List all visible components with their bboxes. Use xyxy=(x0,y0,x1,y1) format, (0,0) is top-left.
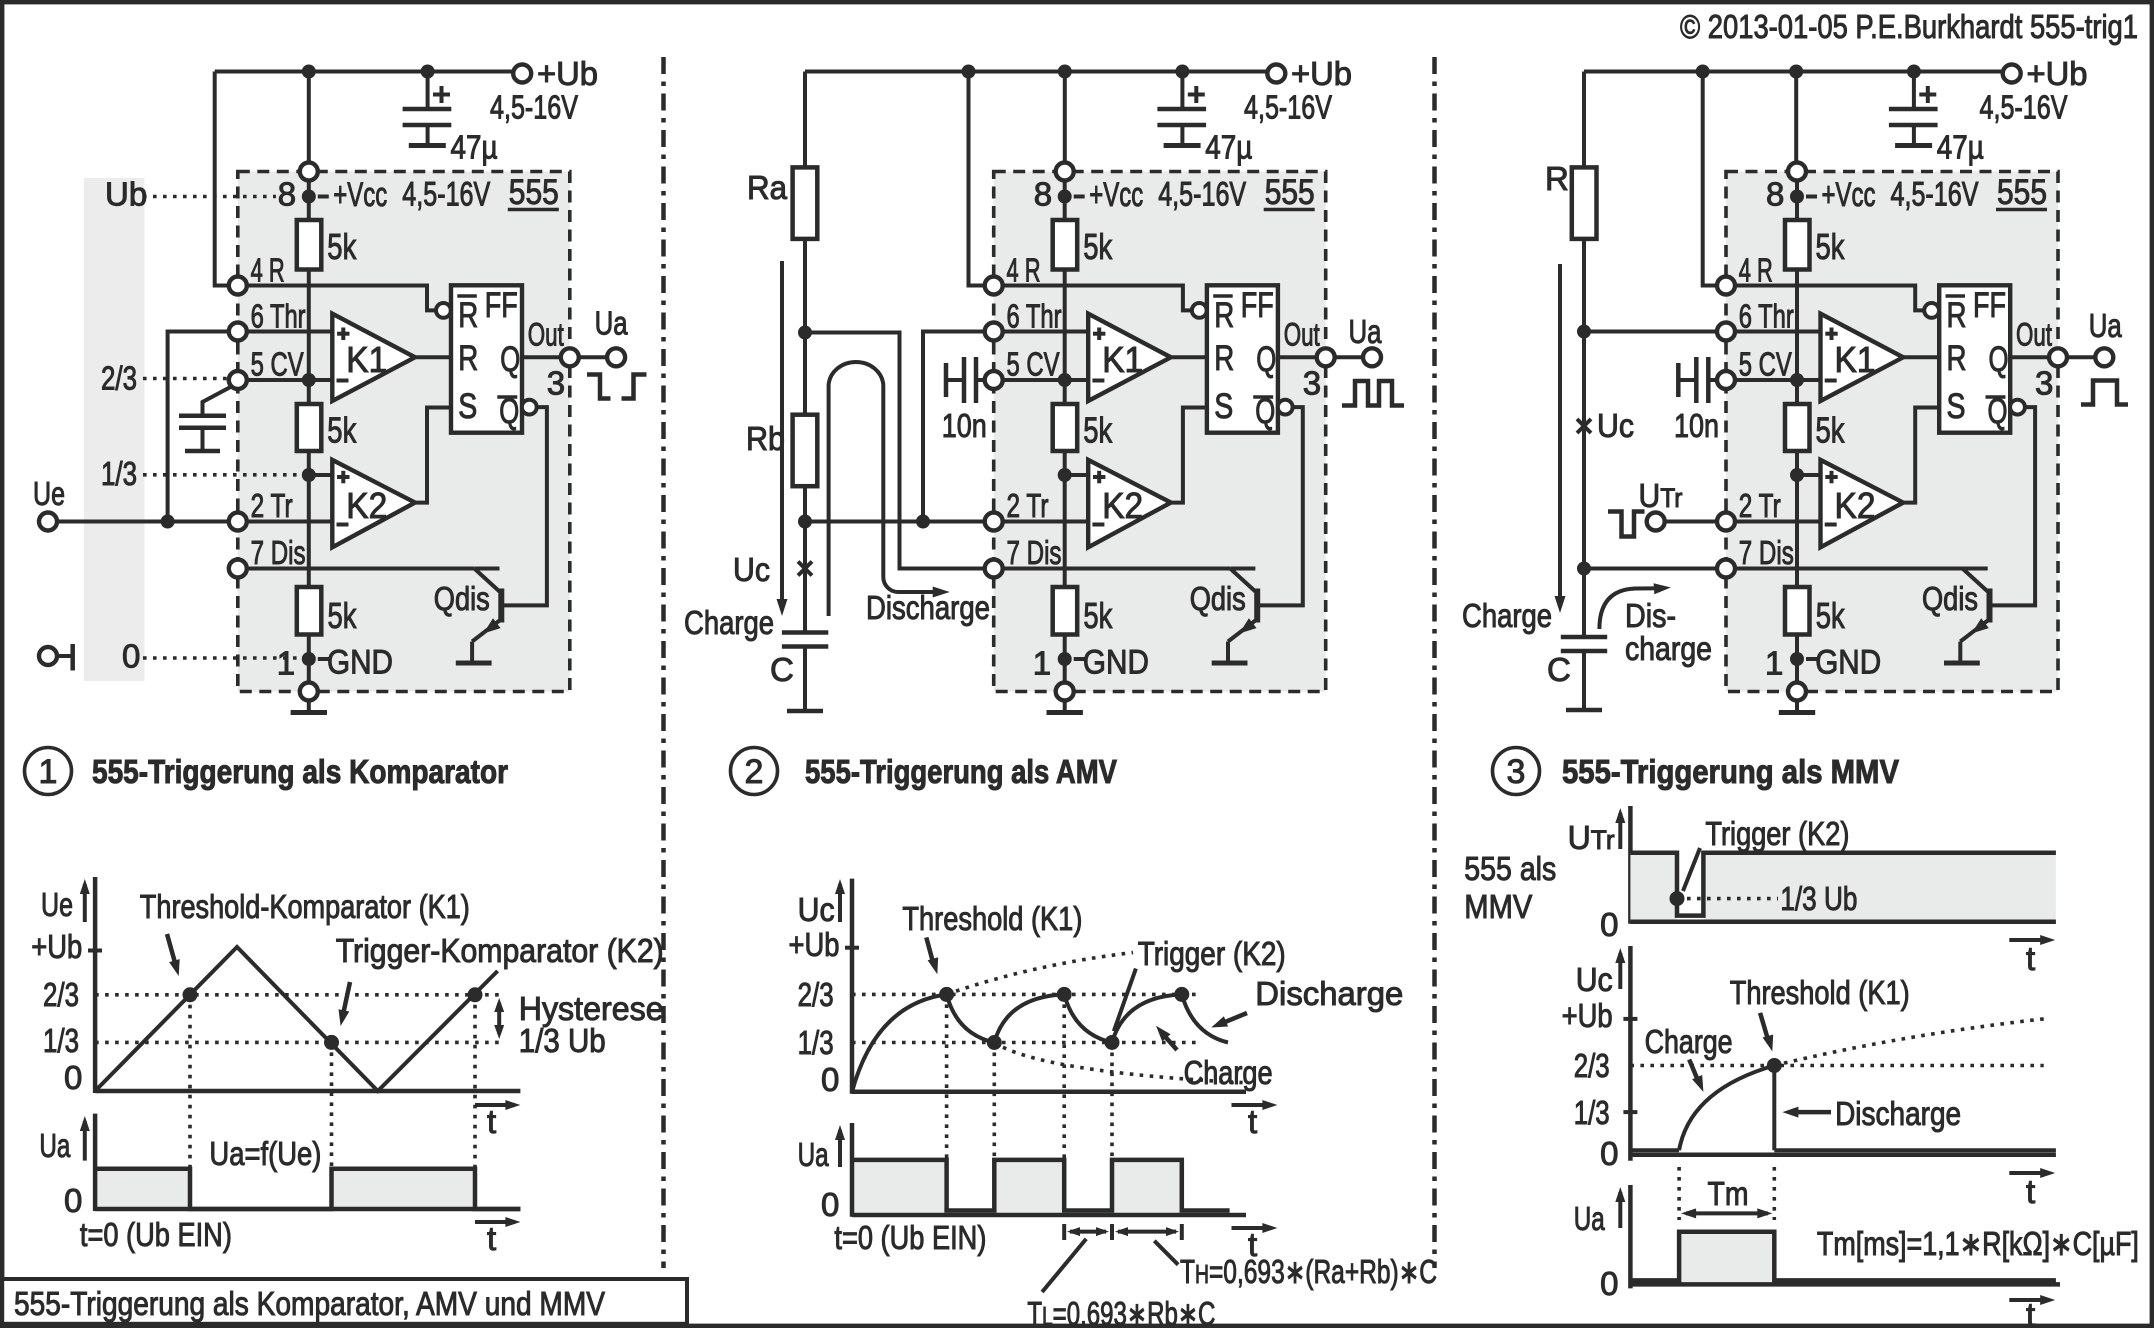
output waveform symbol (inverted pulse) xyxy=(587,375,611,399)
wire middle resistor to 1/3 node xyxy=(1795,451,1799,587)
wire R down to capacitor C xyxy=(1582,239,1586,635)
svg-text:5 CV: 5 CV xyxy=(1007,346,1060,383)
svg-text:2 Tr: 2 Tr xyxy=(1007,487,1049,524)
wire Thr pin to Tr line xyxy=(923,332,1003,522)
Ua square wave xyxy=(95,1169,520,1209)
column separator 2 xyxy=(1432,57,1437,1268)
junction Rb/Tr node xyxy=(798,515,812,529)
svg-text:Rb: Rb xyxy=(746,420,785,457)
resistor Ra xyxy=(803,72,807,168)
svg-text:3: 3 xyxy=(2035,365,2053,402)
t axis arrow C xyxy=(2009,1298,2049,1302)
svg-text:Ua: Ua xyxy=(1574,1200,1605,1237)
CV node junction xyxy=(302,373,316,387)
svg-text:555 als: 555 als xyxy=(1464,850,1556,887)
K1 + input marker xyxy=(337,332,349,336)
svg-text:Qdis: Qdis xyxy=(1922,580,1978,617)
svg-text:5k: 5k xyxy=(1816,410,1846,451)
TL leader line xyxy=(1042,1239,1086,1292)
Ua axis vertical xyxy=(850,1123,855,1217)
output terminal circle xyxy=(1363,348,1381,366)
pin 8 +Vcc top terminal xyxy=(307,180,311,220)
pin 6 Thr terminal wire xyxy=(994,330,1088,334)
svg-text:Ua: Ua xyxy=(39,1127,70,1164)
junction Ra/Rb node xyxy=(798,326,812,340)
resistor R xyxy=(1582,72,1586,168)
threshold dot 1 xyxy=(939,987,954,1002)
K1 switching point dot 1 xyxy=(183,987,198,1002)
svg-text:Threshold-Komparator (K1): Threshold-Komparator (K1) xyxy=(140,888,470,925)
svg-text:Charge: Charge xyxy=(1184,1054,1273,1091)
K2 + input marker xyxy=(1825,475,1837,479)
svg-text:Ua: Ua xyxy=(2089,307,2123,344)
Qdis emitter with arrow xyxy=(1228,621,1255,642)
svg-text:4 R: 4 R xyxy=(251,252,285,289)
capacitor C lead to ground xyxy=(1582,651,1586,708)
TH dimension arrows xyxy=(1118,1230,1176,1234)
svg-text:Uc: Uc xyxy=(1597,407,1634,444)
pin 1 GND bottom terminal xyxy=(300,683,318,701)
svg-text:t: t xyxy=(1248,1103,1257,1140)
pin 4 R terminal xyxy=(1717,277,1735,295)
svg-text:4,5-16V: 4,5-16V xyxy=(402,176,490,214)
+Ub tick xyxy=(1623,1017,1637,1021)
svg-text:charge: charge xyxy=(1625,630,1712,667)
dotted guide vertical right xyxy=(1773,1167,1777,1220)
resistor R divider middle 5k xyxy=(297,404,322,451)
svg-text:47µ: 47µ xyxy=(1205,129,1252,166)
dotted guide vertical at first K1 point xyxy=(188,995,192,1168)
pin 7 Dis wire xyxy=(1726,567,1963,571)
svg-text:MMV: MMV xyxy=(1464,888,1532,925)
UTr 0 axis xyxy=(1630,919,2055,924)
pin 7 Dis wire xyxy=(238,567,474,571)
capacitor 47u plus sign xyxy=(1919,93,1936,97)
ground bar under Qdis emitter xyxy=(456,661,492,666)
svg-text:FF: FF xyxy=(1241,286,1274,325)
pin 3 Out terminal on box edge xyxy=(1326,355,1363,359)
ground bar under C xyxy=(1566,708,1602,713)
pin 8 +Vcc top terminal xyxy=(1063,180,1067,220)
svg-text:5 CV: 5 CV xyxy=(251,346,304,383)
UTr axis vertical xyxy=(1628,806,1633,924)
trigger level dot xyxy=(1670,891,1685,906)
+Ub terminal xyxy=(513,65,531,83)
threshold arrow xyxy=(1760,1013,1769,1043)
svg-text:Charge: Charge xyxy=(1645,1023,1733,1060)
svg-text:Uc: Uc xyxy=(1576,961,1613,998)
wire Rb to capacitor C xyxy=(803,486,807,630)
svg-text:5k: 5k xyxy=(1816,226,1846,267)
svg-text:2/3: 2/3 xyxy=(1574,1047,1610,1084)
svg-text:Q: Q xyxy=(500,340,520,379)
column separator 1 xyxy=(661,57,666,1268)
FF R-bar inverter bubble xyxy=(436,303,451,318)
wire rail to pin 4 R xyxy=(215,72,229,286)
TL dimension arrows xyxy=(1070,1230,1106,1234)
K1 - input marker xyxy=(1092,379,1104,383)
t axis arrow A xyxy=(2009,938,2049,942)
pin 7 Dis wire xyxy=(994,567,1230,571)
svg-text:UTr: UTr xyxy=(1568,819,1615,856)
svg-text:8: 8 xyxy=(1034,176,1052,213)
dotted 2/3 line xyxy=(1630,1064,2043,1068)
svg-text:+Ub: +Ub xyxy=(1562,997,1613,1034)
wire Ue junction up to pin 6 Thr xyxy=(168,332,229,522)
pin 7 Dis terminal xyxy=(229,560,247,578)
wire divider top resistor to CV node xyxy=(1795,270,1799,405)
svg-text:Ue: Ue xyxy=(33,475,65,512)
+Ub tick xyxy=(845,946,859,950)
CV node junction xyxy=(1058,373,1072,387)
svg-text:R: R xyxy=(1545,160,1569,197)
svg-text:R: R xyxy=(1214,296,1234,335)
dotted 1/3 Ub line xyxy=(1687,897,1778,901)
svg-text:Ue: Ue xyxy=(41,886,73,923)
FF R-bar inverter bubble xyxy=(1192,303,1207,318)
wire rail to pin 4 xyxy=(969,72,985,286)
svg-text:0: 0 xyxy=(122,638,140,675)
svg-text:7 Dis: 7 Dis xyxy=(251,534,306,571)
svg-text:t: t xyxy=(487,1220,496,1257)
pin 7 Dis terminal xyxy=(1717,560,1735,578)
capacitor C lead to ground xyxy=(803,647,807,710)
svg-text:555: 555 xyxy=(1265,173,1315,212)
Ua output: gray fill pulse 1 xyxy=(95,1169,190,1209)
charge arrow xyxy=(1162,1033,1177,1050)
charge arrow xyxy=(1689,1060,1699,1084)
output waveform symbol (double pulse) xyxy=(1342,381,1404,406)
svg-text:GND: GND xyxy=(1815,644,1881,682)
wire middle resistor to 1/3 node xyxy=(1063,451,1067,587)
svg-text:Ua: Ua xyxy=(1349,313,1383,350)
FF Q-bar output bubble xyxy=(522,400,537,415)
dotted Ub line xyxy=(143,195,276,199)
svg-text:1/3 Ub: 1/3 Ub xyxy=(519,1022,606,1059)
svg-text:1: 1 xyxy=(1765,645,1783,682)
K2 - input marker xyxy=(1092,523,1104,527)
svg-text:R: R xyxy=(1214,339,1234,378)
svg-text:1: 1 xyxy=(277,645,295,682)
K2 + input marker xyxy=(337,475,349,479)
threshold dot 2 xyxy=(1057,987,1072,1002)
svg-text:Q: Q xyxy=(1989,340,2009,379)
threshold dot xyxy=(1767,1058,1782,1073)
comparator K1 xyxy=(332,314,415,401)
svg-text:2/3: 2/3 xyxy=(798,976,834,1013)
header circle 1 xyxy=(25,748,72,795)
wire K1 output to FF R input xyxy=(415,355,451,359)
svg-text:3: 3 xyxy=(547,365,565,402)
svg-text:555-Triggerung als MMV: 555-Triggerung als MMV xyxy=(1562,753,1899,790)
svg-text:8: 8 xyxy=(1766,176,1784,213)
FF Q-bar output bubble xyxy=(1278,400,1293,415)
svg-text:5k: 5k xyxy=(1083,410,1113,451)
svg-text:4,5-16V: 4,5-16V xyxy=(1158,176,1246,214)
pin 4 R terminal xyxy=(985,277,1003,295)
CV filter capacitor bottom bar xyxy=(185,449,220,454)
dotted 1/3 line xyxy=(143,473,301,477)
wire 1/3 node to K2 + input xyxy=(1797,473,1821,477)
svg-text:7 Dis: 7 Dis xyxy=(1739,534,1794,571)
wire rail to pin 4 xyxy=(1703,72,1717,286)
pin 6 external stub xyxy=(229,323,247,341)
svg-text:2/3: 2/3 xyxy=(101,360,137,397)
svg-text:Charge: Charge xyxy=(1462,597,1552,634)
Qdis emitter with arrow xyxy=(472,621,499,642)
flip-flop FF block xyxy=(1207,285,1278,432)
capacitor 47u lead xyxy=(426,72,430,108)
t axis arrow 2 xyxy=(1232,1226,1272,1230)
svg-text:Discharge: Discharge xyxy=(1255,975,1403,1012)
pin 6 Thr terminal xyxy=(1717,323,1735,341)
trigger dot 1 xyxy=(987,1035,1002,1050)
pin 5 CV terminal xyxy=(1717,371,1735,389)
charge arrow annotation xyxy=(1558,264,1562,600)
svg-text:Ub: Ub xyxy=(105,176,147,213)
Ua pulse waveform xyxy=(1630,1232,2055,1281)
svg-text:TL=0,693∗Rb∗C: TL=0,693∗Rb∗C xyxy=(1027,1295,1215,1328)
wire K2 output to FF S input xyxy=(415,408,451,503)
pin 5 CV terminal xyxy=(229,371,247,389)
Ue axis vertical xyxy=(93,877,98,1093)
svg-text:4 R: 4 R xyxy=(1007,252,1041,289)
ground lead below IC xyxy=(307,701,311,712)
flip-flop FF block xyxy=(451,285,522,432)
svg-text:S: S xyxy=(1214,387,1233,426)
svg-text:t: t xyxy=(487,1103,496,1140)
pin 5 CV wire xyxy=(238,378,332,382)
1/3 tick xyxy=(1623,1110,1637,1114)
output waveform symbol (single pulse) xyxy=(2081,381,2128,405)
svg-text:R: R xyxy=(458,296,478,335)
wire 1/3 node to K2 + input xyxy=(1065,473,1089,477)
svg-text:C: C xyxy=(770,651,794,688)
svg-text:1/3: 1/3 xyxy=(101,455,137,492)
wire node to Dis pin (via right jog) xyxy=(805,333,985,569)
wire bottom resistor to GND pin xyxy=(1795,635,1799,683)
svg-text:R: R xyxy=(1947,296,1967,335)
svg-text:Out: Out xyxy=(2016,317,2052,353)
svg-text:K2: K2 xyxy=(1102,485,1143,526)
svg-text:4,5-16V: 4,5-16V xyxy=(490,89,578,126)
junction Dis node xyxy=(1577,562,1591,576)
dotted charge continuation xyxy=(1774,1019,2043,1066)
dotted guide vertical 4 xyxy=(1110,1043,1114,1160)
svg-text:4 R: 4 R xyxy=(1739,252,1773,289)
UTr waveform with trigger notch xyxy=(1630,853,2055,916)
wire node to Dis pin xyxy=(1584,567,1717,571)
output terminal circle xyxy=(2095,348,2113,366)
svg-text:555: 555 xyxy=(509,173,559,212)
ground bar below IC xyxy=(1779,710,1815,715)
svg-text:3: 3 xyxy=(1303,365,1321,402)
wire rail to pin 8 xyxy=(307,72,311,172)
comparator K2 xyxy=(1088,460,1171,547)
svg-text:555: 555 xyxy=(1997,173,2047,212)
resistor R divider bottom 5k xyxy=(297,587,322,635)
K2 switching point dot xyxy=(324,1035,339,1050)
+Ub supply rail xyxy=(805,70,1276,74)
svg-text:Tm: Tm xyxy=(1708,1175,1749,1212)
resistor R divider bottom 5k xyxy=(1053,587,1078,635)
svg-text:0: 0 xyxy=(1600,906,1618,943)
svg-text:555-Triggerung als AMV: 555-Triggerung als AMV xyxy=(805,753,1117,790)
dotted guide vertical 2 xyxy=(992,1043,996,1160)
Uc axis label arrow xyxy=(1618,953,1622,989)
junction rail/pin8 xyxy=(302,65,316,79)
FF Q-bar output bubble xyxy=(2010,400,2025,415)
svg-text:2 Tr: 2 Tr xyxy=(1739,487,1781,524)
ground bar under C xyxy=(787,709,823,714)
wire pin 4 to FF R-bar input xyxy=(247,286,436,311)
svg-text:2: 2 xyxy=(745,753,764,791)
+Ub supply rail xyxy=(215,70,523,74)
t axis arrow 1 xyxy=(1232,1103,1272,1107)
dotted 2/3 line xyxy=(143,377,228,381)
CV node junction xyxy=(1790,373,1804,387)
Uc measurement cross xyxy=(798,562,812,576)
FF R-bar inverter bubble xyxy=(1924,303,1939,318)
svg-text:Charge: Charge xyxy=(684,604,774,641)
Ua axis vertical xyxy=(1628,1185,1633,1288)
pin 5 CV terminal xyxy=(985,371,1003,389)
trigger pulse waveform glyph xyxy=(1608,512,1645,537)
pin 7 Dis terminal xyxy=(985,560,1003,578)
svg-text:Trigger (K2): Trigger (K2) xyxy=(1138,935,1286,972)
pin 2 Tr wire xyxy=(994,520,1088,524)
1/3 node junction xyxy=(1790,468,1804,482)
svg-text:S: S xyxy=(458,387,477,426)
555 IC U3 dashed outline box xyxy=(1726,172,2058,692)
dotted envelope upper (charge continuation) xyxy=(947,953,1133,995)
svg-text:Discharge: Discharge xyxy=(866,589,990,626)
dotted guide vertical at K2 point xyxy=(330,1042,334,1168)
svg-text:R: R xyxy=(458,339,478,378)
svg-text:5k: 5k xyxy=(1083,226,1113,267)
discharge loop annotation xyxy=(829,362,936,616)
svg-text:+Ub: +Ub xyxy=(789,926,840,963)
svg-text:K1: K1 xyxy=(1835,339,1876,380)
svg-text:4,5-16V: 4,5-16V xyxy=(1891,176,1979,214)
svg-text:Ua: Ua xyxy=(798,1136,829,1173)
555 IC U1 dashed outline box xyxy=(238,172,570,692)
svg-text:5k: 5k xyxy=(327,226,357,267)
svg-text:555-Triggerung als Komparator,: 555-Triggerung als Komparator, AMV und M… xyxy=(14,1285,605,1322)
K2 + input marker xyxy=(1093,475,1105,479)
svg-text:4,5-16V: 4,5-16V xyxy=(1244,89,1332,126)
K1 - input marker xyxy=(337,379,349,383)
Ua axis vertical xyxy=(93,1114,98,1211)
capacitor 47u bottom bar xyxy=(409,143,446,148)
svg-text:6 Thr: 6 Thr xyxy=(251,298,306,335)
svg-text:t: t xyxy=(2026,1173,2035,1210)
wire pin 4 to FF R-bar input xyxy=(1735,286,1924,311)
svg-text:Trigger-Komparator (K2): Trigger-Komparator (K2) xyxy=(336,932,664,969)
resistor R divider middle 5k xyxy=(1053,404,1078,451)
pin 1 GND node xyxy=(1058,652,1072,666)
junction R/Thr node xyxy=(1577,325,1591,339)
svg-text:t=0 (Ub EIN): t=0 (Ub EIN) xyxy=(80,1216,232,1253)
discharge transistor Qdis xyxy=(1963,567,1988,571)
triangle input waveform Ue xyxy=(95,947,498,1091)
resistor R divider middle 5k xyxy=(1785,404,1810,451)
dotted guide vertical left xyxy=(1677,1167,1681,1220)
svg-text:1/3 Ub: 1/3 Ub xyxy=(1780,880,1857,917)
Ua axis label arrow xyxy=(83,1121,87,1161)
pin 2 Tr wire xyxy=(1726,520,1821,524)
svg-text:47µ: 47µ xyxy=(451,129,498,166)
+Ub terminal xyxy=(1267,65,1285,83)
pin 3 Out terminal on box edge xyxy=(2058,355,2095,359)
svg-text:0: 0 xyxy=(821,1061,839,1098)
svg-text:Qdis: Qdis xyxy=(434,580,490,617)
comparator K1 xyxy=(1088,314,1171,401)
discharge arrow xyxy=(1219,1013,1247,1025)
pin 1 GND node xyxy=(1790,652,1804,666)
Uc axis vertical xyxy=(1628,946,1633,1161)
dotted 1/3 level line xyxy=(95,1041,502,1045)
K2 - input marker xyxy=(337,523,349,527)
pin 1 GND bottom terminal xyxy=(1788,683,1806,701)
svg-text:Threshold (K1): Threshold (K1) xyxy=(902,900,1082,937)
svg-text:5k: 5k xyxy=(1816,595,1846,636)
wire FF Q output to pin 3 xyxy=(2010,355,2058,359)
wire bottom resistor to GND pin xyxy=(307,635,311,683)
discharge arrow xyxy=(1790,1110,1831,1115)
threshold dot 3 xyxy=(1174,987,1189,1002)
wire divider top resistor to CV node xyxy=(307,270,311,405)
trigger arrow xyxy=(343,982,351,1017)
pin 6 Thr terminal wire xyxy=(1726,330,1821,334)
svg-text:Qdis: Qdis xyxy=(1190,580,1246,617)
pin 2 Tr terminal xyxy=(1717,513,1735,531)
t axis horizontal xyxy=(852,1090,1246,1095)
resistor Rb xyxy=(793,415,818,487)
capacitor 47u plates xyxy=(403,107,452,112)
1/3 node junction xyxy=(302,468,316,482)
svg-text:Ra: Ra xyxy=(747,169,788,206)
dotted guide vertical at second K1 point xyxy=(473,995,477,1168)
Uc axis vertical xyxy=(850,879,855,1094)
header circle 3 xyxy=(1493,748,1540,795)
pin 2 Tr terminal xyxy=(229,513,247,531)
capacitor 47u plates xyxy=(1889,107,1938,112)
svg-text:+Ub: +Ub xyxy=(2027,55,2088,92)
wire divider top resistor to CV node xyxy=(1063,270,1067,405)
svg-text:+Ub: +Ub xyxy=(1291,55,1352,92)
svg-text:K1: K1 xyxy=(1102,339,1143,380)
svg-text:Trigger (K2): Trigger (K2) xyxy=(1705,815,1849,852)
wire Tr line xyxy=(805,520,985,524)
hysteresis double arrow xyxy=(497,1003,501,1034)
svg-text:Threshold (K1): Threshold (K1) xyxy=(1730,974,1910,1011)
svg-text:UTr: UTr xyxy=(1639,477,1683,514)
wire rail to pin 8 xyxy=(1063,72,1067,172)
discharge transistor Qdis xyxy=(1230,567,1255,571)
svg-text:+Vcc: +Vcc xyxy=(1822,176,1876,214)
ground bar under Qdis emitter xyxy=(1212,661,1248,666)
1/3 node junction xyxy=(1058,468,1072,482)
svg-text:2/3: 2/3 xyxy=(43,976,79,1013)
svg-text:Q: Q xyxy=(1256,340,1276,379)
resistor R divider top 5k xyxy=(1063,220,1067,222)
Uc waveform flat zero then charge then drop xyxy=(1630,1148,1679,1152)
Ua output: gray fill pulse 2 xyxy=(332,1169,476,1209)
svg-text:FF: FF xyxy=(1973,286,2006,325)
10n capacitor plates xyxy=(962,357,967,403)
svg-text:GND: GND xyxy=(327,644,393,682)
